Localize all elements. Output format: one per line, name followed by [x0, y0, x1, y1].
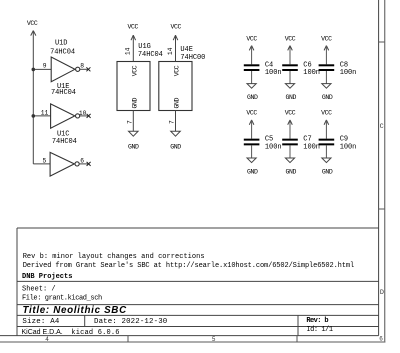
- svg-text:4: 4: [45, 336, 49, 343]
- svg-text:5: 5: [212, 336, 216, 343]
- svg-text:U1D: U1D: [55, 39, 67, 47]
- svg-text:VCC: VCC: [246, 110, 257, 117]
- svg-text:Sheet: /: Sheet: /: [22, 286, 56, 294]
- svg-text:8: 8: [80, 63, 84, 70]
- svg-text:Date: 2022-12-30: Date: 2022-12-30: [94, 318, 167, 326]
- svg-text:7: 7: [126, 120, 133, 124]
- svg-text:9: 9: [43, 63, 47, 70]
- svg-text:6: 6: [379, 335, 383, 342]
- svg-text:11: 11: [41, 109, 49, 116]
- svg-text:GND: GND: [131, 97, 138, 108]
- svg-text:100n: 100n: [265, 69, 282, 77]
- svg-text:Rev b: minor layout changes an: Rev b: minor layout changes and correcti…: [23, 253, 205, 261]
- svg-text:100n: 100n: [340, 69, 357, 77]
- svg-text:74HC04: 74HC04: [138, 51, 163, 59]
- svg-text:14: 14: [167, 47, 174, 55]
- svg-text:100n: 100n: [340, 143, 357, 151]
- svg-text:U1C: U1C: [57, 130, 69, 138]
- svg-text:74HC04: 74HC04: [50, 48, 75, 56]
- svg-text:GND: GND: [322, 169, 333, 176]
- svg-text:GND: GND: [247, 169, 258, 176]
- svg-text:GND: GND: [322, 94, 333, 101]
- svg-text:Size: A4: Size: A4: [22, 318, 59, 326]
- svg-text:74HC00: 74HC00: [180, 54, 205, 62]
- svg-text:14: 14: [125, 47, 132, 55]
- svg-text:VCC: VCC: [171, 24, 182, 31]
- svg-text:Id: 1/1: Id: 1/1: [306, 326, 333, 334]
- svg-text:GND: GND: [285, 169, 296, 176]
- svg-text:VCC: VCC: [174, 65, 181, 76]
- svg-text:VCC: VCC: [127, 23, 138, 30]
- svg-text:kicad 6.0.6: kicad 6.0.6: [71, 329, 119, 337]
- svg-text:VCC: VCC: [285, 35, 296, 42]
- svg-text:Title: Neolithic SBC: Title: Neolithic SBC: [23, 305, 128, 316]
- svg-text:GND: GND: [285, 94, 296, 101]
- svg-text:VCC: VCC: [321, 35, 332, 42]
- svg-text:File: grant.kicad_sch: File: grant.kicad_sch: [22, 295, 102, 303]
- svg-text:6: 6: [80, 158, 84, 165]
- svg-text:KiCad E.D.A.: KiCad E.D.A.: [22, 329, 63, 336]
- svg-text:10: 10: [79, 110, 87, 117]
- svg-text:VCC: VCC: [246, 35, 257, 42]
- svg-text:GND: GND: [170, 144, 181, 151]
- svg-text:74HC04: 74HC04: [51, 89, 76, 97]
- svg-text:Derived from Grant Searle's SB: Derived from Grant Searle's SBC at http:…: [23, 262, 354, 270]
- svg-text:U4E: U4E: [180, 46, 192, 54]
- svg-text:100n: 100n: [303, 69, 320, 77]
- svg-text:100n: 100n: [303, 143, 320, 151]
- svg-text:DNB Projects: DNB Projects: [22, 273, 72, 281]
- svg-text:VCC: VCC: [27, 20, 38, 27]
- svg-text:GND: GND: [247, 94, 258, 101]
- svg-text:74HC04: 74HC04: [52, 138, 77, 146]
- svg-text:5: 5: [43, 158, 47, 165]
- svg-text:VCC: VCC: [131, 65, 138, 76]
- svg-text:GND: GND: [174, 97, 181, 108]
- svg-text:C: C: [380, 123, 384, 131]
- svg-text:7: 7: [169, 120, 176, 124]
- svg-text:VCC: VCC: [285, 110, 296, 117]
- svg-text:Rev: b: Rev: b: [306, 317, 328, 325]
- svg-text:D: D: [380, 289, 384, 297]
- svg-text:GND: GND: [128, 144, 139, 151]
- svg-text:100n: 100n: [265, 143, 282, 151]
- svg-text:VCC: VCC: [321, 110, 332, 117]
